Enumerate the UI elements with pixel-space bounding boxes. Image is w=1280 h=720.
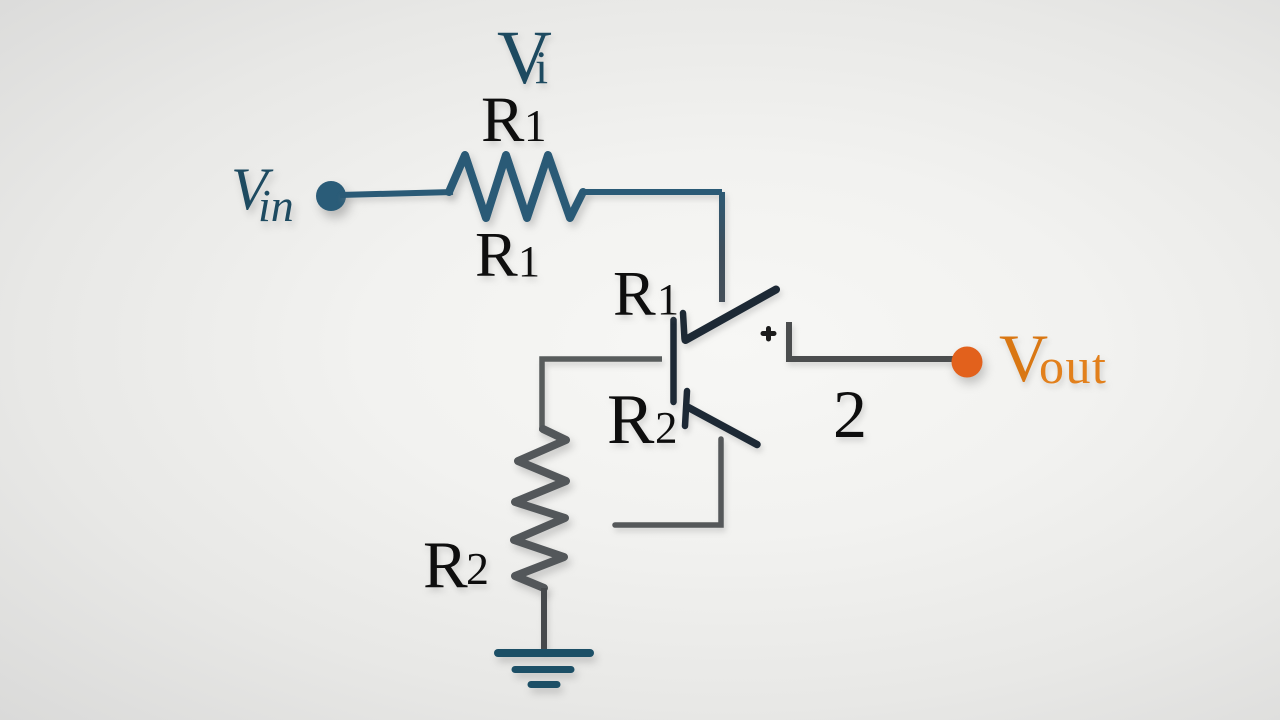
transistor Q1: [674, 290, 777, 403]
resistor R2: [514, 429, 566, 588]
resistor R1: [449, 155, 583, 218]
wire Q1 to Vout node: [789, 322, 958, 359]
label R1 above resistor: [481, 84, 547, 156]
transistor Q2: [685, 391, 757, 445]
wire resistor R1 to transistor collector drop: [583, 192, 719, 193]
label R1 below resistor: [475, 219, 540, 290]
svg-text:out: out: [1039, 338, 1107, 394]
wire R2 to ground: [541, 588, 547, 651]
label Vi: [497, 16, 552, 100]
svg-text:1: 1: [524, 101, 547, 151]
svg-text:in: in: [258, 180, 294, 231]
svg-text:2: 2: [655, 403, 678, 453]
svg-text:R: R: [607, 381, 655, 459]
svg-text:R: R: [613, 258, 656, 329]
label R1 at transistor base: [613, 258, 679, 329]
wire vertical drop to Q1: [719, 192, 725, 302]
svg-text:i: i: [535, 42, 548, 94]
svg-text:2: 2: [466, 543, 489, 594]
svg-text:R: R: [475, 219, 518, 290]
svg-text:1: 1: [518, 237, 540, 286]
wire transistor base to R2 top: [542, 359, 662, 431]
wire Vin dot to resistor R1: [340, 192, 453, 195]
node Vin terminal dot: [316, 181, 346, 211]
svg-text:2: 2: [833, 376, 867, 452]
svg-text:R: R: [481, 84, 525, 156]
polarity plus mark: [763, 329, 774, 340]
label R2 left of resistor: [423, 528, 489, 602]
ground: [498, 653, 590, 685]
label R2 near transistor: [607, 381, 678, 459]
wire Q2 emitter to feedback: [615, 439, 721, 525]
label Vout: [999, 320, 1107, 396]
svg-text:1: 1: [657, 275, 679, 324]
svg-text:R: R: [423, 528, 468, 602]
node Vout terminal dot: [952, 347, 983, 378]
label Vin: [231, 156, 294, 231]
